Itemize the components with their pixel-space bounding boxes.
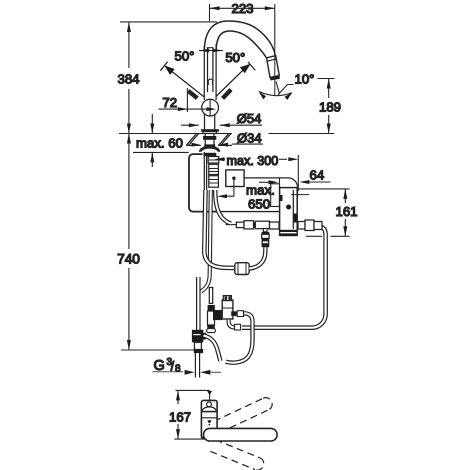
top reference line <box>120 21 217 23</box>
max300 dim <box>215 155 299 191</box>
svg-text:max. 300: max. 300 <box>227 154 279 168</box>
chain of connectors to box <box>226 221 280 229</box>
svg-text:64: 64 <box>310 168 325 183</box>
damper block <box>235 263 249 275</box>
dim 72 <box>159 88 188 112</box>
bottom reference line (740 end) <box>121 349 200 351</box>
svg-text:72: 72 <box>162 95 177 110</box>
shank blocks <box>204 152 219 195</box>
dashed swivel spouts <box>210 398 272 470</box>
svg-text:max. 60: max. 60 <box>136 136 183 151</box>
shank dark bands through counter <box>203 136 216 140</box>
svg-text:/: / <box>171 360 175 374</box>
dim 161 <box>299 189 350 236</box>
inlet cable from small box to control box <box>244 178 297 198</box>
top view spout <box>203 428 277 441</box>
handle top double arrow <box>199 49 223 53</box>
svg-text:740: 740 <box>117 252 140 267</box>
dim 740 <box>127 134 131 351</box>
dim O54 <box>181 123 262 127</box>
spray head <box>267 56 280 78</box>
dim 64 <box>299 180 330 184</box>
dim 223 top <box>210 4 275 45</box>
G3/8 dim <box>153 370 222 375</box>
base collar <box>201 129 219 132</box>
control box <box>271 184 309 236</box>
svg-text:Ø34: Ø34 <box>237 130 262 145</box>
svg-text:161: 161 <box>336 204 358 219</box>
svg-text:50°: 50° <box>225 50 245 65</box>
svg-text:384: 384 <box>117 72 139 87</box>
top view <box>174 390 209 439</box>
svg-text:189: 189 <box>319 100 341 115</box>
big rounded rect <box>189 154 221 212</box>
counter top line <box>119 133 232 135</box>
check valve assembly <box>207 288 241 333</box>
svg-text:G: G <box>154 358 165 374</box>
long hose right to elbow up to box <box>242 226 326 327</box>
U hose bottom <box>226 313 253 362</box>
escutcheon parallelogram <box>186 134 232 147</box>
hose from damper up to chain nut <box>249 247 265 268</box>
dim 72 arrow over ball <box>187 108 207 110</box>
valve right branch connectors <box>231 311 237 316</box>
svg-text:10°: 10° <box>295 72 315 87</box>
dim 384 <box>127 22 131 134</box>
svg-text:650: 650 <box>248 197 270 212</box>
handle neutral <box>207 48 209 92</box>
svg-text:50°: 50° <box>175 49 195 64</box>
dim O34 <box>232 143 263 145</box>
top view body <box>201 400 217 438</box>
mount hardware under counter <box>200 147 219 152</box>
svg-text:8: 8 <box>175 363 181 374</box>
small box with dot <box>217 170 244 198</box>
10 deg indicator <box>259 45 294 100</box>
handle swing lines <box>160 62 204 97</box>
handle stubs 50deg <box>188 91 197 98</box>
big pullout hose loop <box>204 190 235 268</box>
supply pipe <box>196 277 201 330</box>
ball joint <box>202 99 219 116</box>
tube below ball joint <box>204 114 206 130</box>
dim 189 <box>318 79 335 134</box>
counter bottom line <box>133 151 189 153</box>
cable down from shank <box>201 190 211 292</box>
hose from tee down right <box>203 336 220 362</box>
top view marker <box>207 391 212 400</box>
dim max60 <box>150 114 154 167</box>
svg-text:Ø54: Ø54 <box>237 111 262 126</box>
spout gooseneck <box>204 21 280 81</box>
faucet neck tube <box>204 44 216 100</box>
svg-text:167: 167 <box>169 410 191 425</box>
svg-text:223: 223 <box>231 1 253 16</box>
hose from shank to chain <box>215 190 231 224</box>
